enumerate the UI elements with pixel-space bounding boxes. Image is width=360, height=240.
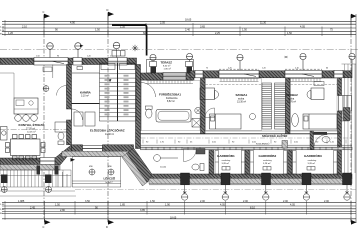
svg-text:SZOBA2: SZOBA2: [286, 93, 298, 97]
bottom flag right: [351, 219, 357, 225]
kitchen wall line: [52, 65, 54, 79]
east wing plinth line: [149, 184, 352, 186]
kamra door arc: [57, 86, 67, 96]
svg-text:1,50: 1,50: [55, 203, 60, 206]
window east small: [334, 70, 343, 78]
grid marker circle 3: [113, 42, 120, 58]
door jamb post a: [37, 166, 41, 175]
section flag D top: [107, 8, 115, 20]
svg-text:1,90: 1,90: [165, 203, 170, 206]
wall micro dimension texts east wing: [206, 68, 328, 70]
svg-text:3,28 m²: 3,28 m²: [263, 162, 271, 165]
bathroom north wall seg b: [186, 73, 194, 80]
porch post 4: [302, 173, 311, 185]
svg-text:KAMRA: KAMRA: [80, 90, 92, 94]
svg-text:11,30: 11,30: [260, 22, 267, 25]
gardrobe divider wall 2: [245, 150, 249, 174]
bathroom1 door arc: [141, 83, 156, 98]
window W3: [108, 58, 127, 66]
szelfogo door arc: [314, 134, 328, 146]
svg-text:4,05: 4,05: [290, 203, 295, 206]
szoba2 bed: [303, 114, 337, 129]
dining table: [6, 135, 46, 161]
bathroom1 inner boundary: [141, 81, 200, 131]
deck dark block: [344, 108, 351, 121]
svg-text:GARDRÓB1: GARDRÓB1: [217, 153, 235, 158]
porch post 1: [181, 173, 190, 185]
entry step arrow: [71, 158, 76, 162]
svg-text:C: C: [43, 10, 45, 14]
wc1: [145, 106, 152, 118]
svg-text:2,40: 2,40: [185, 29, 190, 32]
svg-text:2,45: 2,45: [30, 206, 35, 209]
szoba1 stool: [250, 114, 256, 120]
kitchen radiator: [43, 67, 52, 72]
kamra shelf: [72, 72, 100, 74]
svg-text:szoba: szoba: [238, 98, 245, 100]
bottom flag C: [43, 219, 51, 229]
right side deck: [342, 64, 357, 173]
kamra west wall upper: [67, 65, 72, 110]
bath2 boiler: [154, 155, 178, 162]
grid marker circle terrace right: [186, 53, 192, 66]
east wall radiator: [341, 112, 349, 121]
grid marker circle 6: [237, 54, 243, 70]
east wall window: [339, 96, 352, 112]
terrace slab: [147, 60, 194, 74]
svg-text:D: D: [107, 8, 109, 12]
grid marker circle 8: [349, 53, 355, 70]
east wing north wall seg c: [259, 71, 285, 78]
svg-text:Ø30: Ø30: [89, 166, 93, 168]
svg-text:1,26: 1,26: [8, 32, 13, 35]
svg-text:4,05: 4,05: [300, 25, 305, 28]
roof edge thick line above terrace: [112, 25, 147, 55]
corridor cabinet: [282, 141, 288, 149]
szelfogo partition wall: [310, 131, 314, 150]
grid marker circle 2: [75, 43, 82, 58]
hall south wall seg b: [103, 145, 134, 151]
east wing north wall seg a: [190, 71, 195, 78]
north star mark: [132, 45, 138, 51]
szelfogo lintel dark bar: [314, 132, 328, 135]
porch post 3: [262, 173, 271, 185]
bath2 door arc: [184, 149, 197, 162]
szoba2 east outer wall lower: [338, 111, 342, 174]
hall east wall: [136, 65, 141, 149]
svg-text:17,05 m²: 17,05 m²: [26, 128, 35, 131]
szoba1 bed: [210, 114, 242, 129]
bathtub: [156, 110, 191, 123]
kitchen island: [14, 98, 38, 114]
diagonal plinth band: [122, 154, 147, 187]
bathroom east wall: [201, 78, 206, 134]
kitchen axis dash-dot: [0, 128, 68, 130]
gardrobe1 door mark: [222, 167, 230, 171]
svg-text:14,60 m²: 14,60 m²: [105, 133, 114, 136]
bottom dimension ticks: [5, 201, 351, 220]
svg-text:3,85: 3,85: [140, 209, 145, 212]
gardrobe divider wall 3: [288, 150, 292, 174]
svg-text:8,52 m²: 8,52 m²: [167, 100, 175, 103]
left wing north wall segment b: [68, 58, 73, 65]
corridor micro dimension row: [146, 142, 335, 144]
svg-text:1,50: 1,50: [242, 29, 247, 32]
top dimension numbers: [8, 19, 333, 35]
svg-text:TERASZ: TERASZ: [161, 60, 173, 64]
szoba1-szoba2 dividing wall: [286, 78, 291, 134]
corridor tick marks: [143, 140, 346, 144]
grid marker circle 7: [300, 53, 306, 70]
svg-text:GARDRÓB2: GARDRÓB2: [259, 153, 277, 158]
entry porch slab: [72, 157, 121, 188]
tiny arrow near circle 2: [80, 45, 84, 48]
porch post left2: [45, 175, 52, 184]
svg-text:75: 75: [206, 68, 208, 70]
bathroom window: [163, 73, 186, 81]
porch column circles bottom: [182, 185, 351, 200]
svg-text:2,00: 2,00: [324, 200, 329, 203]
wall micro dimension texts left wing: [36, 56, 114, 58]
svg-text:szoba: szoba: [288, 98, 295, 100]
stair step numbers: [105, 75, 129, 116]
svg-text:fürdőszoba: fürdőszoba: [166, 97, 178, 100]
left wing north wall segment a: [0, 58, 34, 65]
svg-text:1,95 m²: 1,95 m²: [164, 67, 172, 70]
svg-text:3,28 m²: 3,28 m²: [308, 162, 316, 165]
svg-text:8,10: 8,10: [250, 206, 255, 209]
szoba1 radiator ticks: [220, 78, 259, 81]
svg-text:C: C: [43, 225, 45, 229]
porch column circle left2: [46, 187, 52, 193]
hall south wall seg a: [72, 145, 83, 151]
small wc under stairs: [55, 122, 67, 145]
szelfogo sink: [322, 137, 330, 143]
svg-text:4,90: 4,90: [70, 22, 75, 25]
hall-kitchen door arc: [72, 109, 83, 120]
szoba1 door arc: [205, 108, 215, 118]
bottom dimension numbers: [18, 200, 329, 220]
bath2 wc: [192, 164, 204, 171]
grid marker circle terrace left: [150, 54, 156, 66]
svg-text:GARDRÓB3: GARDRÓB3: [304, 153, 322, 158]
window szoba1 small: [195, 70, 203, 78]
staircase: [100, 63, 137, 121]
diagonal wall hall-east wing: [127, 148, 154, 183]
bath1 inner line: [140, 80, 142, 131]
top dimension tick marks: [5, 20, 351, 36]
kamra west wall lower: [67, 120, 72, 145]
svg-text:szekrény: szekrény: [308, 159, 318, 162]
left margin dim texts: [0, 204, 5, 215]
svg-text:3,50: 3,50: [85, 200, 90, 203]
porch post left1: [1, 175, 8, 184]
corridor south wall lines: [141, 144, 353, 146]
terrace post left: [150, 62, 157, 67]
szoba2 chair: [307, 91, 311, 99]
kitchen south door: [40, 158, 55, 165]
bar stools: [15, 115, 38, 122]
section cut line C: [43, 20, 45, 219]
window W1: [34, 58, 68, 66]
porch column circle left1: [1, 187, 7, 193]
east wing north wall seg e: [343, 71, 352, 78]
exterior steps: [58, 170, 67, 187]
svg-text:1,50: 1,50: [287, 32, 292, 35]
svg-text:60: 60: [326, 68, 328, 70]
kitchen plinth band: [0, 165, 60, 171]
left wing north wall segment d: [127, 58, 137, 65]
svg-text:2,00: 2,00: [200, 200, 205, 203]
svg-text:18,65: 18,65: [170, 216, 177, 219]
svg-text:12,76 m²: 12,76 m²: [287, 100, 296, 103]
szoba2 desk: [311, 88, 324, 100]
gardrobe divider wall 1: [209, 150, 214, 174]
szoba2 east outer wall upper: [338, 78, 342, 96]
corridor glazed partition band: [141, 147, 353, 150]
kitchen zone line: [13, 73, 15, 98]
svg-text:1,50: 1,50: [36, 56, 40, 58]
window szoba2 large: [285, 69, 322, 78]
svg-text:2,00: 2,00: [283, 200, 288, 203]
svg-text:18,65: 18,65: [185, 19, 192, 22]
left edge dim marks: [0, 27, 5, 36]
grid marker circle 1: [47, 43, 54, 58]
szoba2 wall shelf: [314, 82, 324, 86]
bottom dimension lines: [2, 202, 356, 219]
porch post 5: [343, 173, 352, 185]
right margin vertical line: [355, 14, 357, 223]
svg-text:FÜRDŐSZOBA1: FÜRDŐSZOBA1: [159, 91, 181, 96]
washing machine bath1: [192, 119, 201, 128]
szoba1 chair: [215, 91, 219, 99]
svg-text:Ø30: Ø30: [108, 166, 112, 168]
svg-text:KONYHA, ÉTKEZŐ: KONYHA, ÉTKEZŐ: [19, 122, 46, 127]
bathroom north parapet ticks: [147, 81, 194, 84]
wc room fixtures: [74, 112, 95, 126]
gardrobe2 door mark: [263, 167, 271, 171]
svg-text:LÉPCSŐ: LÉPCSŐ: [104, 176, 116, 181]
svg-text:2,05: 2,05: [160, 22, 165, 25]
entry porch columns: [89, 169, 114, 175]
ground dashed line: [75, 189, 356, 191]
kitchen door circle marker: [43, 86, 49, 92]
szoba1 inner boundary: [206, 79, 262, 131]
svg-text:1,985: 1,985: [18, 200, 25, 203]
floor drain circle: [195, 107, 201, 113]
gardrobe3 door mark: [307, 167, 315, 171]
svg-text:4,05: 4,05: [220, 203, 225, 206]
section flag C top: [43, 10, 51, 20]
longitudinal axis dash-dot: [0, 49, 358, 51]
gardrobe2 cabinets: [250, 151, 287, 175]
bathroom north wall seg a: [141, 73, 164, 80]
east wing south wall dark band: [151, 174, 352, 178]
svg-text:mosdó: mosdó: [160, 167, 167, 169]
window szoba1 large: [219, 69, 259, 78]
svg-text:3,10 m²: 3,10 m²: [81, 95, 89, 98]
svg-text:2,00: 2,00: [243, 200, 248, 203]
svg-text:1,50: 1,50: [95, 29, 100, 32]
svg-text:KÖZLEKEDŐ: KÖZLEKEDŐ: [256, 142, 270, 145]
svg-text:3,65: 3,65: [200, 25, 205, 28]
svg-text:90: 90: [57, 56, 59, 58]
szoba2 armchair: [292, 114, 299, 127]
svg-text:2,10: 2,10: [22, 25, 27, 28]
szoba2 inner boundary: [291, 79, 338, 131]
svg-text:SZÉLFOGÓ, ELŐTÉR: SZÉLFOGÓ, ELŐTÉR: [262, 135, 287, 138]
left porch deck: [0, 170, 75, 191]
hall plinth band: [62, 151, 134, 156]
szoba south inner line: [205, 130, 338, 132]
svg-text:2,25: 2,25: [215, 32, 220, 35]
micro cross mark: [285, 56, 288, 58]
corridor north wall: [141, 133, 342, 135]
porch post 2: [221, 173, 230, 185]
section flag top right: [351, 14, 357, 20]
svg-text:D: D: [106, 225, 108, 229]
gardrobe1 cabinets: [215, 151, 245, 175]
svg-text:1,85: 1,85: [120, 203, 125, 206]
svg-text:8,50 m²: 8,50 m²: [163, 65, 171, 68]
svg-text:szekrény: szekrény: [263, 159, 273, 162]
beam dashed line szoba1: [206, 84, 262, 86]
bottom flag D: [106, 219, 114, 229]
section cut line D: [107, 20, 109, 219]
svg-text:13,30 m²: 13,30 m²: [237, 100, 246, 103]
svg-text:2,80: 2,80: [60, 209, 65, 212]
kitchen south wall: [0, 158, 40, 165]
left ground line: [0, 195, 76, 197]
beam dashed line szoba2: [291, 84, 338, 86]
left wing north wall segment c: [82, 58, 108, 65]
svg-text:1,20: 1,20: [87, 56, 91, 58]
section cut line right: [350, 20, 352, 219]
szoba1 desk: [200, 88, 215, 100]
svg-text:3,28 m²: 3,28 m²: [222, 162, 230, 165]
svg-text:SZOBA1: SZOBA1: [236, 93, 248, 97]
entry porch column labels: [89, 166, 112, 168]
window W2: [73, 58, 82, 66]
svg-text:1,20: 1,20: [262, 68, 266, 70]
kamra south wall: [72, 103, 100, 105]
bath2 washer: [196, 149, 205, 155]
door jamb post b: [55, 166, 59, 175]
svg-text:ELŐSZOBA LÉPCSŐHÁZ: ELŐSZOBA LÉPCSŐHÁZ: [90, 128, 125, 133]
east wing plinth band: [149, 178, 352, 183]
corridor mid dashed axis: [141, 137, 353, 139]
hall south door: [83, 145, 103, 152]
diagonal wall kitchen-hall: [55, 145, 72, 165]
svg-text:1,50: 1,50: [150, 200, 155, 203]
kitchen counter left wall: [1, 127, 8, 141]
terrace post right: [186, 62, 193, 67]
gardrobe3 cabinets: [293, 151, 337, 175]
top dimension lines: [2, 21, 356, 34]
svg-text:szekrény: szekrény: [222, 159, 232, 162]
wardrobe strip: [262, 83, 286, 129]
chimney box: [112, 51, 125, 57]
east wing north wall seg b: [203, 71, 219, 78]
east wing north wall seg d: [322, 71, 334, 78]
szoba2 radiator ticks: [286, 78, 322, 81]
svg-text:12,05 m²: 12,05 m²: [27, 131, 36, 134]
